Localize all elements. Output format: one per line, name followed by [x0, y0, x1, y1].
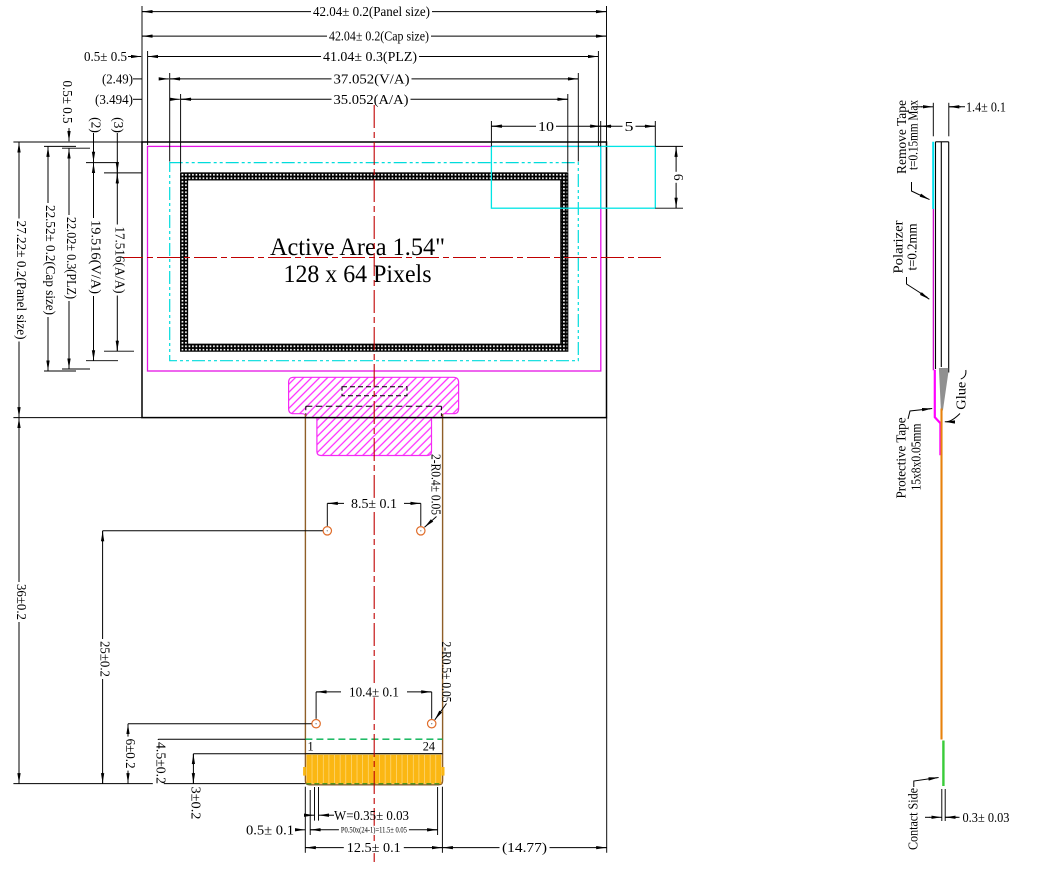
- svg-text:0.5± 0.5: 0.5± 0.5: [60, 81, 75, 124]
- svg-text:(2): (2): [89, 117, 104, 133]
- svg-text:6: 6: [671, 174, 686, 181]
- svg-text:1.4± 0.1: 1.4± 0.1: [966, 99, 1006, 114]
- ext line conn a: [304, 787, 306, 853]
- leader connector top row: [193, 753, 305, 755]
- svg-text:25±0.2: 25±0.2: [98, 641, 113, 677]
- polarizer (magenta) layer: [932, 209, 934, 370]
- label 2-R0.4 upper holes: [425, 454, 444, 527]
- ext line A/A bottom left: [104, 350, 134, 352]
- svg-text:t=0.15mm Max: t=0.15mm Max: [905, 100, 920, 170]
- ext line ribbon bottom left: [13, 783, 305, 785]
- panel outline: [142, 142, 607, 418]
- svg-text:(3.494): (3.494): [95, 92, 133, 107]
- ext line A/A left: [180, 94, 182, 172]
- pin 24 label: [423, 740, 435, 754]
- ext line A/A right: [567, 94, 569, 172]
- svg-text:(3): (3): [111, 117, 126, 133]
- active area label line 1: [270, 234, 445, 261]
- lower-left alignment hole: [312, 720, 320, 728]
- ext line V/A bottom left: [86, 360, 118, 362]
- svg-text:Protective Tape: Protective Tape: [893, 418, 908, 499]
- dimension 4.5: [153, 739, 169, 786]
- connector bottom dashed edge: [306, 783, 441, 785]
- svg-text:8.5± 0.1: 8.5± 0.1: [351, 496, 397, 511]
- contact side (green) segment: [942, 741, 944, 787]
- ext line cyan box top right: [655, 145, 683, 147]
- dimension P0.50 pitch: [310, 825, 437, 834]
- svg-text:Contact Side: Contact Side: [905, 788, 920, 850]
- svg-text:10: 10: [538, 119, 554, 134]
- label remove tape: [894, 100, 930, 200]
- FPC ribbon left edge: [304, 414, 306, 754]
- ext line PLZ top left: [62, 147, 90, 149]
- dashed bend line on tab: [306, 406, 442, 416]
- svg-text:6±0.2: 6±0.2: [123, 739, 138, 769]
- offset 0.5 left label: [84, 49, 141, 64]
- FPC bonding tab (protective tape, hatched) upper part: [289, 377, 459, 417]
- dimension 8.5 upper holes: [327, 496, 421, 526]
- dashed outline inside tab: [342, 387, 407, 396]
- dimension 41.04 PLZ: [148, 49, 599, 64]
- dimension 36: [14, 418, 30, 784]
- svg-text:37.052(V/A): 37.052(V/A): [334, 72, 410, 87]
- ext line cap top left: [44, 145, 76, 147]
- FPC (orange) side line: [940, 409, 942, 740]
- horizontal centerline (red): [120, 257, 665, 259]
- ext line V/A left: [169, 73, 171, 162]
- ext line cyan box bottom right: [655, 207, 683, 209]
- svg-text:42.04± 0.2(Panel size): 42.04± 0.2(Panel size): [313, 4, 430, 19]
- svg-text:24: 24: [423, 740, 435, 754]
- svg-text:4.5±0.2: 4.5±0.2: [153, 742, 168, 784]
- svg-text:0.5± 0.5: 0.5± 0.5: [84, 49, 127, 64]
- dimension 5: [601, 119, 656, 134]
- ext line side top a: [932, 103, 934, 137]
- dimension 6 bottom: [123, 724, 139, 784]
- svg-text:0.5± 0.1: 0.5± 0.1: [246, 822, 294, 837]
- offset (3) label: [111, 117, 126, 173]
- label polarizer: [891, 220, 930, 299]
- label 2-R0.5 lower holes: [435, 642, 454, 720]
- dimension 25: [97, 531, 113, 784]
- dimension W=0.35 electrode width: [304, 808, 409, 823]
- connector top edge: [305, 753, 442, 755]
- label protective tape: [893, 409, 932, 499]
- active area label line 2: [284, 261, 432, 288]
- ext line side bottom b: [944, 789, 946, 821]
- ext line cap right above: [600, 121, 602, 146]
- svg-text:Polarizer: Polarizer: [891, 220, 906, 273]
- upper-left alignment hole: [323, 527, 331, 535]
- connector contact pads (24x): [303, 755, 444, 784]
- leader green line row: [158, 738, 305, 740]
- ext line conn e: [437, 787, 439, 835]
- cyan reference box: [491, 146, 655, 208]
- svg-text:2-R0.5± 0.05: 2-R0.5± 0.05: [439, 642, 454, 703]
- label contact side: [905, 778, 938, 851]
- side glass right edge: [948, 142, 950, 373]
- svg-text:2-R0.4± 0.05: 2-R0.4± 0.05: [428, 454, 443, 515]
- dimension 42.04 panel size: [142, 4, 607, 19]
- ext line side bottom a: [941, 789, 943, 821]
- dimension 42.04 cap size: [142, 29, 607, 44]
- dimension 19.516 V/A: [88, 163, 104, 361]
- ext line panel right top: [606, 6, 608, 142]
- svg-text:12.5± 0.1: 12.5± 0.1: [347, 840, 401, 855]
- ext line side top b: [948, 103, 950, 137]
- active area checkered border: [181, 173, 568, 351]
- svg-text:27.22± 0.2(Panel size): 27.22± 0.2(Panel size): [14, 221, 29, 340]
- ext line conn c: [314, 787, 316, 821]
- ext line PLZ right: [597, 51, 599, 146]
- label glue: [945, 370, 969, 422]
- ext line panel left top: [141, 6, 143, 142]
- cap outline (magenta): [148, 146, 601, 371]
- FPC bonding tab lower (neck) part: [317, 418, 432, 456]
- protective tape (pink) layer: [935, 370, 941, 455]
- offset (2.49) label: [102, 72, 169, 87]
- svg-text:(2.49): (2.49): [102, 72, 133, 87]
- svg-text:Glue: Glue: [953, 382, 968, 410]
- ext line V/A top left: [86, 162, 118, 164]
- svg-text:42.04± 0.2(Cap size): 42.04± 0.2(Cap size): [329, 29, 429, 44]
- svg-text:W=0.35± 0.03: W=0.35± 0.03: [334, 808, 409, 823]
- svg-text:35.052(A/A): 35.052(A/A): [334, 92, 409, 107]
- side glass middle edge: [940, 142, 942, 367]
- svg-text:22.02± 0.3(PLZ): 22.02± 0.3(PLZ): [64, 217, 79, 299]
- dimension 12.5 connector width: [305, 840, 442, 855]
- ext line panel top left: [13, 141, 142, 143]
- FPC ribbon bottom outline: [305, 754, 442, 785]
- side glass top edge: [936, 141, 949, 143]
- svg-text:1: 1: [308, 740, 314, 754]
- svg-text:17.516(A/A): 17.516(A/A): [112, 227, 127, 294]
- svg-text:10.4± 0.1: 10.4± 0.1: [349, 685, 399, 700]
- dimension 3 line: [192, 754, 194, 784]
- leader lower hole row: [128, 723, 312, 725]
- dimension 22.52 cap size: [43, 146, 59, 371]
- svg-text:15x8x0.05mm: 15x8x0.05mm: [908, 423, 923, 490]
- ext line panel bottom left: [13, 417, 142, 419]
- V/A dash-dot outline (cyan): [170, 163, 579, 361]
- lower-right alignment hole: [428, 720, 436, 728]
- svg-text:36±0.2: 36±0.2: [14, 584, 29, 620]
- green dashed stiffener line: [305, 738, 442, 740]
- offset (3.494) label: [95, 92, 180, 107]
- dimension 0.5 edge margin: [246, 822, 305, 837]
- offset (2) label: [89, 117, 104, 162]
- svg-text:3±0.2: 3±0.2: [188, 787, 203, 820]
- ext line cyan box right: [654, 121, 656, 146]
- ext line PLZ left: [147, 51, 149, 145]
- FPC ribbon right edge: [442, 414, 444, 754]
- upper-right alignment hole: [417, 527, 425, 535]
- dimension 27.22 panel size: [14, 142, 30, 418]
- svg-text:128 x 64 Pixels: 128 x 64 Pixels: [284, 261, 432, 288]
- svg-text:t=0.2mm: t=0.2mm: [905, 223, 920, 270]
- ext line panel right bottom: [606, 418, 608, 853]
- dimension (14.77): [442, 840, 606, 855]
- svg-text:5: 5: [625, 119, 634, 134]
- ext line PLZ bottom left: [62, 368, 90, 370]
- svg-text:19.516(V/A): 19.516(V/A): [89, 220, 104, 294]
- ext line conn f: [441, 787, 443, 853]
- pin 1 label: [308, 740, 314, 754]
- svg-text:P0.50x(24-1)=11.5± 0.05: P0.50x(24-1)=11.5± 0.05: [341, 825, 407, 834]
- ext line conn b: [309, 790, 311, 835]
- ext line cap bottom left: [44, 370, 76, 372]
- dimension 22.02 PLZ: [64, 148, 80, 369]
- dimension 17.516 A/A: [112, 173, 128, 351]
- svg-text:22.52± 0.2(Cap size): 22.52± 0.2(Cap size): [43, 205, 58, 315]
- side glass left edge: [935, 142, 937, 369]
- dimension 0.3 FPC thickness: [925, 810, 1010, 825]
- vertical centerline (red): [373, 105, 375, 862]
- dimension 1.4 thickness: [912, 99, 1006, 114]
- svg-text:41.04± 0.3(PLZ): 41.04± 0.3(PLZ): [323, 49, 417, 64]
- dimension 10: [491, 119, 600, 134]
- dimension 37.052 V/A: [170, 72, 579, 87]
- leader upper hole row: [103, 530, 323, 532]
- glue wedge: [939, 368, 948, 411]
- offset 0.5 top-left label: [60, 81, 75, 142]
- dimension 35.052 A/A: [181, 92, 568, 107]
- ext line conn d: [318, 787, 320, 821]
- ext line A/A top left: [104, 172, 142, 174]
- ext line V/A right: [577, 73, 579, 162]
- svg-text:(14.77): (14.77): [502, 840, 547, 855]
- dimension 6 (cyan box height): [671, 146, 686, 208]
- dimension 10.4 lower holes: [316, 685, 432, 719]
- remove tape (cyan) layer: [932, 142, 934, 209]
- svg-text:0.3± 0.03: 0.3± 0.03: [963, 810, 1010, 825]
- dimension 3 label: [188, 787, 203, 820]
- ext line cyan box left: [490, 121, 492, 146]
